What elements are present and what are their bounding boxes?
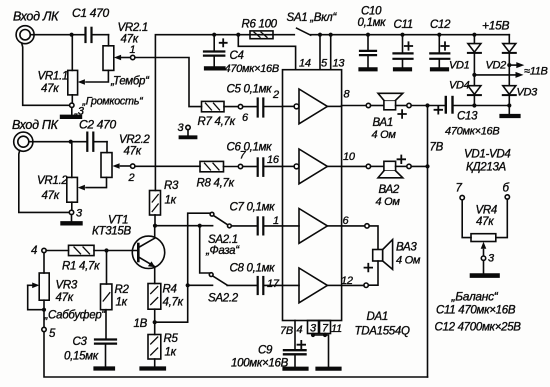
svg-text:ВА2: ВА2 <box>379 184 400 196</box>
pin box 7 <box>320 321 331 335</box>
wire SA2.1 movable arm (from 1V line) <box>188 213 210 322</box>
terminal circle 1 <box>131 55 135 59</box>
wire pins 3-7-11 tie <box>313 334 329 367</box>
ground (C10) <box>361 67 376 71</box>
svg-text:TDA1554Q: TDA1554Q <box>355 326 410 338</box>
capacitor C3 <box>95 340 116 367</box>
svg-text:4 Ом: 4 Ом <box>376 196 401 208</box>
svg-text:VR2.2: VR2.2 <box>119 134 150 146</box>
svg-text:ВА1: ВА1 <box>373 117 393 129</box>
wire pin 14 branch <box>238 35 295 70</box>
svg-text:б: б <box>503 183 510 195</box>
svg-text:R7 4,7к: R7 4,7к <box>198 116 236 128</box>
label C4 470мк×16В <box>225 50 279 75</box>
svg-text:47к: 47к <box>56 292 74 304</box>
ground (C12) <box>432 67 447 71</box>
svg-text:ВА3: ВА3 <box>396 242 417 254</box>
ground (VR4) <box>472 273 498 278</box>
wire jack ПК ground tail <box>19 150 69 212</box>
wire VD1-VD4 junction to right column + lower output arrow <box>474 74 516 76</box>
input jack ЛК <box>16 26 34 44</box>
capacitor C2 <box>71 133 107 151</box>
terminal circle 6 <box>238 104 242 108</box>
wire 1V node to SA2 arm <box>155 321 188 323</box>
svg-text:16: 16 <box>267 154 280 166</box>
diode VD3 <box>503 65 516 105</box>
svg-text:1: 1 <box>130 44 136 56</box>
label DA1 TDA1554Q <box>355 311 410 338</box>
wire pin 4 <box>294 321 296 349</box>
node pin14 branch <box>236 33 240 37</box>
node 7V rail top <box>425 103 429 107</box>
svg-text:7: 7 <box>456 183 463 195</box>
svg-text:VR4: VR4 <box>476 205 497 217</box>
capacitor C1 <box>72 28 109 42</box>
node VR3 wiper tie <box>42 308 46 312</box>
svg-text:1В: 1В <box>134 318 148 330</box>
wire diode bottom row <box>474 105 509 107</box>
svg-text:„3: „3 <box>74 106 85 118</box>
node A <box>70 33 74 37</box>
svg-text:0,1мк: 0,1мк <box>358 17 387 29</box>
wire C1 to VR2.1 top <box>108 35 110 46</box>
svg-text:С12 4700мк×25В: С12 4700мк×25В <box>435 322 522 334</box>
resistor R4 <box>148 284 161 323</box>
wire supply rail (left part to SA1) <box>155 35 294 191</box>
node SA2 branch <box>198 224 202 228</box>
svg-text:С13: С13 <box>457 111 478 123</box>
svg-text:КД213А: КД213А <box>466 162 507 174</box>
ground (under VR1.2 terminal 3) <box>63 215 81 224</box>
resistor R8 <box>200 161 238 171</box>
ground (pin 11) <box>318 367 340 371</box>
node collector <box>153 224 157 228</box>
svg-text:„Тембр“: „Тембр“ <box>110 76 150 88</box>
capacitor C11 <box>394 35 413 67</box>
capacitor C6 <box>243 158 283 175</box>
capacitor C10 <box>360 35 376 67</box>
wire VR2.2 bottom to VR1.2 wiper <box>86 177 107 187</box>
label C9 100мк×16В <box>231 345 289 370</box>
svg-text:4: 4 <box>31 245 37 257</box>
resistor R5 <box>148 322 161 366</box>
svg-text:2: 2 <box>128 172 135 184</box>
svg-text:R8 4,7к: R8 4,7к <box>197 178 235 190</box>
terminal circle 4 <box>42 248 46 252</box>
svg-text:SA2.2: SA2.2 <box>208 293 239 305</box>
svg-text:С3: С3 <box>73 336 88 348</box>
terminal circle 3 (VR1.2 bottom) <box>69 210 73 214</box>
svg-text:SA1 „Вкл“: SA1 „Вкл“ <box>287 12 338 24</box>
label VR1.2 47к <box>37 175 68 202</box>
svg-text:R2: R2 <box>115 284 130 296</box>
svg-text:0,15мк: 0,15мк <box>64 351 99 363</box>
label R2 1к <box>115 284 130 309</box>
switch SA2.2 <box>209 273 227 285</box>
label VT1 КТ315В <box>92 215 131 238</box>
node 7V rail BA2 <box>425 164 429 168</box>
svg-text:47к: 47к <box>41 83 59 95</box>
svg-text:Вход ПК: Вход ПК <box>12 118 59 132</box>
svg-text:4,7к: 4,7к <box>163 297 184 309</box>
svg-text:7В: 7В <box>280 325 293 337</box>
svg-text:2: 2 <box>272 89 279 101</box>
svg-text:Вход ЛК: Вход ЛК <box>13 10 59 24</box>
input jack ПК <box>14 132 33 151</box>
capacitor C7 <box>231 217 282 234</box>
node VD2-VD3 junction <box>507 63 511 67</box>
node C12 <box>437 33 441 37</box>
svg-text:R4: R4 <box>163 284 177 296</box>
diode VD1 <box>468 35 481 75</box>
svg-text:VD2: VD2 <box>486 60 507 72</box>
svg-text:С6 0,1мк: С6 0,1мк <box>227 142 273 154</box>
svg-text:10: 10 <box>343 151 356 163</box>
ground (C9) <box>285 367 307 371</box>
svg-text:С11 470мк×16В: С11 470мк×16В <box>436 305 516 317</box>
svg-text:„Фаза“: „Фаза“ <box>205 245 240 257</box>
label R5 1к <box>164 333 179 359</box>
svg-text:С11: С11 <box>394 19 413 31</box>
terminal circle 5 <box>42 327 46 331</box>
wire upper 11V output arrow <box>509 62 524 68</box>
resistor R1 <box>46 245 138 255</box>
svg-text:„Баланс“: „Баланс“ <box>451 290 499 304</box>
wire VR2.1 bottom to VR1.1 wiper <box>86 70 108 82</box>
svg-text:470мк×16В: 470мк×16В <box>225 63 279 75</box>
svg-text:С9: С9 <box>258 345 273 357</box>
svg-text:1к: 1к <box>116 297 128 309</box>
arrowhead VR1.1 wiper <box>78 79 85 85</box>
svg-text:С8 0,1мк: С8 0,1мк <box>230 263 276 275</box>
ground (VD3 bottom) <box>502 106 519 117</box>
wire bottom rail <box>44 332 428 377</box>
speaker BA2 <box>342 156 428 178</box>
svg-text:R5: R5 <box>164 333 179 345</box>
svg-text:47к: 47к <box>124 146 142 158</box>
label VR3 47к <box>56 280 78 305</box>
ground (C11) <box>395 67 410 71</box>
terminal circle 2 <box>131 164 135 168</box>
wire jack ЛК to node A <box>31 34 72 36</box>
speaker BA1 <box>342 93 428 117</box>
wire C2 to VR2.2 top <box>106 142 108 153</box>
op-amp U2 (amp2) <box>283 149 342 184</box>
terminal 3 ground (chip left) <box>181 125 196 137</box>
label VR1.1 47к <box>38 71 68 96</box>
node pin 5 <box>318 33 322 37</box>
terminal circle 3 (VR1.1 bottom) <box>70 103 74 107</box>
wire collector node line to SA2.1 contact <box>155 225 213 227</box>
ground (under VR1.1 terminal 3) <box>62 108 80 117</box>
diode VD4 <box>468 75 481 106</box>
resistor R3 <box>150 191 161 226</box>
svg-text:С7 0,1мк: С7 0,1мк <box>230 202 276 214</box>
node pin3 tie <box>311 333 315 337</box>
svg-text:1к: 1к <box>165 195 177 207</box>
label R3 1к <box>164 180 179 207</box>
label C10 0,1мк <box>358 6 387 30</box>
terminal circle 7 <box>238 164 242 168</box>
label C3 0,15мк <box>64 336 99 363</box>
pin box 3 <box>308 321 319 335</box>
svg-text:VR3: VR3 <box>56 280 78 292</box>
arrowhead VR1.2 wiper <box>78 185 85 191</box>
wire 7V rail <box>427 106 429 378</box>
svg-text:DA1: DA1 <box>367 311 388 323</box>
node C10 <box>366 33 370 37</box>
diode VD2 <box>503 35 516 65</box>
svg-text:R3: R3 <box>164 180 179 192</box>
svg-text:1: 1 <box>273 215 279 227</box>
svg-text:17: 17 <box>267 278 280 290</box>
arrowhead lower 11V <box>516 72 524 78</box>
potentiometer VR4 <box>460 195 509 273</box>
capacitor C5 <box>243 99 283 117</box>
wire supply rail (SA1 to +15V corner) <box>311 34 510 36</box>
switch SA1 <box>297 28 311 35</box>
speaker BA3 <box>342 224 393 288</box>
label BA3 4 Ом <box>396 242 421 267</box>
svg-text:„Саббуфер“: „Саббуфер“ <box>44 310 107 322</box>
svg-text:VR1.2: VR1.2 <box>37 175 68 187</box>
op-amp chip DA1 box <box>283 70 342 321</box>
potentiometer VR3 <box>28 253 50 328</box>
wire jack ПК to node B <box>29 141 71 143</box>
capacitor C8 <box>227 277 282 294</box>
svg-text:КТ315В: КТ315В <box>92 226 131 238</box>
svg-text:С5 0,1мк: С5 0,1мк <box>227 84 273 96</box>
wire terminal 2 to R8 (crosses supply line) <box>135 165 200 167</box>
wire SA2.2 fixed line <box>188 284 213 286</box>
node B <box>69 140 73 144</box>
svg-text:4: 4 <box>297 324 303 336</box>
op-amp U1 (amp1) <box>283 89 342 124</box>
wire pin 13 <box>329 33 333 37</box>
svg-text:С1 470: С1 470 <box>72 6 110 20</box>
label VR2.2 47к <box>119 134 150 158</box>
label VR2.1 47к <box>118 22 148 46</box>
node pin7 tie <box>323 333 327 337</box>
node C4 top <box>212 33 216 37</box>
svg-text:VR2.1: VR2.1 <box>118 22 148 34</box>
svg-text:470мк×16В: 470мк×16В <box>445 126 499 138</box>
potentiometer VR2.1 <box>103 46 131 71</box>
node R1-R2-base <box>104 248 108 252</box>
svg-text:VD1: VD1 <box>449 60 470 72</box>
svg-text:„Громкость“: „Громкость“ <box>82 96 145 108</box>
svg-text:С12: С12 <box>430 19 451 31</box>
wire pin 5 <box>319 35 321 70</box>
resistor R2 <box>101 251 112 339</box>
svg-text:VD3: VD3 <box>517 87 539 99</box>
svg-text:13: 13 <box>333 58 346 70</box>
svg-text:≈11В: ≈11В <box>524 66 548 78</box>
label BA1 4 Ом <box>372 117 397 141</box>
capacitor C13 <box>428 97 475 114</box>
op-amp U3 (amp3) <box>283 209 342 244</box>
resistor R7 <box>202 101 239 111</box>
capacitor C9 <box>284 341 306 366</box>
wire jack ЛК ground tail <box>22 43 68 105</box>
wire terminal 1 to R7 (crosses supply line) <box>135 58 202 107</box>
wire SA2.2 movable arm (from collector node) <box>200 226 210 273</box>
switch SA2.1 <box>210 212 231 228</box>
svg-text:VR1.1: VR1.1 <box>38 71 68 83</box>
svg-text:VD4: VD4 <box>449 80 470 92</box>
transistor Q1 VT1 <box>132 226 164 284</box>
node 1V <box>153 320 157 324</box>
node SA2.2 fixed branch <box>186 283 190 287</box>
potentiometer VR1.1 <box>68 35 78 103</box>
capacitor C4 <box>204 35 227 67</box>
label BA2 4 Ом <box>376 184 401 208</box>
svg-text:R6 100: R6 100 <box>242 19 278 31</box>
potentiometer VR2.2 <box>101 153 131 178</box>
label R4 4,7к <box>163 284 184 309</box>
svg-text:47к: 47к <box>476 216 494 228</box>
node C11 <box>400 33 404 37</box>
svg-text:VD1-VD4: VD1-VD4 <box>464 149 510 161</box>
svg-text:4 Ом: 4 Ом <box>372 129 397 141</box>
svg-text:С4: С4 <box>230 50 244 62</box>
svg-text:5: 5 <box>49 328 56 340</box>
svg-text:47к: 47к <box>42 190 60 202</box>
node diode column left <box>472 33 476 37</box>
svg-text:+15В: +15В <box>482 19 509 33</box>
svg-text:С10: С10 <box>361 6 382 18</box>
svg-text:1к: 1к <box>165 347 177 359</box>
resistor R6 <box>250 31 273 39</box>
svg-text:14: 14 <box>299 58 311 70</box>
ground (C3) <box>96 366 114 370</box>
ground (C4) <box>206 66 224 70</box>
ground (R5) <box>142 366 165 370</box>
node VD1-VD4 junction <box>472 73 476 77</box>
svg-text:7В: 7В <box>430 142 444 154</box>
node diode bottom right <box>507 103 511 107</box>
capacitor C12 <box>430 35 449 67</box>
node VD4 bottom <box>472 103 476 107</box>
label VR4 47к <box>476 205 497 229</box>
op-amp U4 (amp4) <box>283 268 342 303</box>
svg-text:100мк×16В: 100мк×16В <box>231 358 289 370</box>
svg-text:4 Ом: 4 Ом <box>396 255 421 267</box>
svg-text:С2 470: С2 470 <box>79 118 117 132</box>
svg-text:R1 4,7к: R1 4,7к <box>62 261 100 273</box>
svg-text:11: 11 <box>331 323 342 335</box>
potentiometer VR1.2 <box>67 142 78 211</box>
